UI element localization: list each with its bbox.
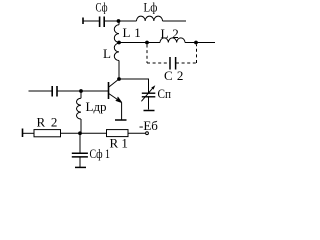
svg-text:Сф: Сф — [96, 0, 108, 15]
svg-text:R 2: R 2 — [37, 115, 58, 130]
svg-text:-Еб: -Еб — [139, 118, 158, 133]
svg-text:Lдр: Lдр — [86, 99, 107, 114]
svg-text:Lф: Lф — [144, 0, 158, 15]
svg-text:L 1: L 1 — [123, 25, 141, 40]
svg-text:C 2: C 2 — [164, 68, 183, 83]
svg-text:Сф 1: Сф 1 — [90, 146, 111, 161]
svg-text:L: L — [103, 46, 111, 61]
svg-text:L 2: L 2 — [161, 26, 179, 41]
svg-text:R 1: R 1 — [110, 136, 128, 151]
svg-text:Сп: Сп — [158, 86, 172, 101]
